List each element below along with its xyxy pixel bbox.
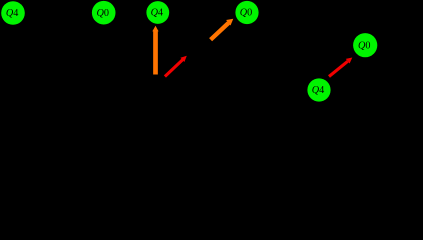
svg-text:Q4: Q4 [312,85,324,96]
svg-text:Q4: Q4 [151,8,163,19]
svg-text:Q0: Q0 [96,8,108,19]
svg-text:Q4: Q4 [6,8,18,19]
svg-text:Q0: Q0 [358,40,370,51]
svg-text:Q0: Q0 [240,8,252,19]
